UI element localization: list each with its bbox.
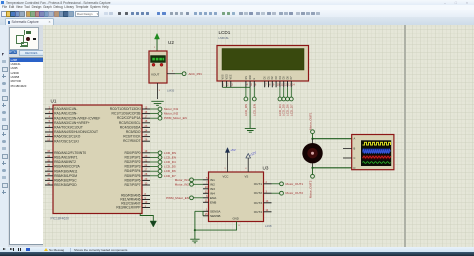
svg-text:VS: VS	[244, 175, 248, 179]
U3 left pins	[203, 180, 209, 216]
LCD1 pin stubs	[222, 81, 291, 87]
svg-text:RD3/PSP3: RD3/PSP3	[124, 165, 140, 169]
wire LCD VSS VDD VEE RW to ground rail	[222, 87, 250, 128]
U1 left pins RA0-RA7, RB0-RB7	[45, 109, 53, 185]
svg-text:RA5/AN4/SS/HLVDIN/C2OUT: RA5/AN4/SS/HLVDIN/C2OUT	[54, 130, 98, 134]
title bar	[0, 0, 474, 5]
U2 pin 3 stub to ground	[156, 83, 158, 99]
wire motor top to oscilloscope A	[312, 138, 351, 140]
display LCD1 LM016L body	[217, 46, 309, 82]
svg-text:VEE: VEE	[229, 74, 232, 79]
svg-text:IN1: IN1	[210, 178, 215, 182]
wire PWM_Motor_EN to U3 ENA	[193, 197, 203, 199]
oscilloscope channel D trace	[362, 162, 390, 164]
svg-text:RC5/SDO: RC5/SDO	[125, 130, 140, 134]
svg-text:RA6/OSC2/CLKO: RA6/OSC2/CLKO	[54, 135, 81, 139]
power terminal +5V on U3 VCC	[225, 148, 235, 153]
svg-text:RC3/SCK/SCL: RC3/SCK/SCL	[118, 121, 140, 125]
oscilloscope C stub	[343, 157, 352, 159]
oscilloscope channel C band	[362, 155, 390, 159]
svg-text:LCD_D4: LCD_D4	[164, 160, 176, 164]
U2 pin 2 stub	[167, 73, 175, 75]
terminal LCD_D4	[277, 97, 281, 116]
svg-text:+5V: +5V	[230, 148, 235, 152]
wire LCD pin to terminal LCD_D6	[286, 87, 288, 97]
wire RD to terminal LCD_D5	[150, 166, 158, 168]
svg-text:OUT1: OUT1	[253, 182, 262, 186]
terminal LCD_EN	[158, 155, 176, 159]
svg-text:L298: L298	[265, 224, 272, 228]
svg-text:RS: RS	[244, 76, 247, 80]
bottom edge	[0, 252, 474, 256]
toolbar	[0, 10, 474, 19]
svg-text:LCD_EN: LCD_EN	[252, 104, 256, 116]
wire RD to terminal LCD_RS	[150, 152, 158, 154]
svg-text:PIC18F4620: PIC18F4620	[50, 217, 69, 221]
svg-text:OUT3: OUT3	[253, 201, 262, 205]
ground arrow terminal below U1	[150, 221, 156, 227]
svg-text:Motor_OUT1: Motor_OUT1	[285, 182, 303, 186]
svg-text:ENB: ENB	[210, 200, 216, 204]
power terminal +5V above U2	[154, 34, 159, 43]
wire LCD pin to terminal LCD_D5	[282, 87, 284, 97]
oscilloscope screen	[361, 140, 391, 166]
wire U3 SENSA SENSB to ground	[194, 211, 236, 230]
svg-text:RB1/AN10/INT1: RB1/AN10/INT1	[54, 156, 78, 160]
wire LCD pin to terminal LCD_D7	[290, 87, 292, 97]
svg-text:LCD_RS: LCD_RS	[164, 151, 176, 155]
wire U1 bottom to down-arrow terminal	[140, 214, 153, 222]
terminal Motor_IN1	[158, 107, 178, 111]
svg-text:Motor_IN2: Motor_IN2	[164, 112, 179, 116]
svg-text:RA4/T0CKI/C1OUT: RA4/T0CKI/C1OUT	[54, 126, 83, 130]
wire RC to terminal PWM_Motor_EN	[150, 117, 158, 119]
svg-text:GND: GND	[232, 217, 238, 221]
P / L buttons + DEVICES header	[9, 50, 13, 55]
svg-text:A: A	[353, 137, 355, 141]
terminal LCD_RS	[158, 151, 176, 155]
svg-text:RB6/KBI2/PGC: RB6/KBI2/PGC	[54, 179, 77, 183]
wire RD to terminal LCD_D6	[150, 170, 158, 172]
svg-text:RA0/AN0/C1IN-: RA0/AN0/C1IN-	[54, 107, 77, 111]
svg-text:VSS: VSS	[221, 74, 224, 79]
tab bar	[0, 17, 474, 26]
terminal Motor_IN1 feeding U3	[174, 178, 193, 182]
terminal LCD_D5	[158, 165, 176, 169]
svg-text:LM016L: LM016L	[218, 36, 229, 40]
wire Motor_IN2 to U3 IN2	[193, 183, 203, 185]
U3 VS pin 4 wire up	[247, 158, 249, 172]
wire RC to terminal Motor_IN2	[150, 113, 158, 115]
terminal PWM_Motor_EN	[158, 116, 187, 120]
oscilloscope channel A trace	[362, 142, 390, 145]
sensor U2 LM35 body	[149, 51, 167, 83]
svg-text:RC4/SDI/SDA: RC4/SDI/SDA	[119, 125, 141, 129]
device listbox	[9, 57, 44, 245]
terminal LCD_D6	[158, 169, 176, 173]
U3 right pin names	[253, 182, 262, 214]
svg-text:LCD_EN: LCD_EN	[164, 155, 176, 159]
oscilloscope channel B trace	[362, 150, 390, 154]
svg-text:IN4: IN4	[210, 191, 215, 195]
U1 right pin numbers	[144, 106, 147, 207]
svg-text:RE3/MCLR/VPP: RE3/MCLR/VPP	[116, 206, 141, 210]
terminal LCD_D6	[285, 97, 289, 116]
junction motor bottom	[311, 167, 313, 169]
svg-text:Motor_OUT2: Motor_OUT2	[285, 191, 303, 195]
junction motor top	[311, 138, 313, 140]
svg-text:VOUT: VOUT	[151, 73, 160, 77]
wire power to U2 pin 1	[156, 42, 158, 51]
svg-text:OUT4: OUT4	[253, 210, 262, 214]
oscilloscope B stub	[343, 147, 352, 149]
svg-text:RD0/PSP0: RD0/PSP0	[124, 151, 140, 155]
svg-text:SENSB: SENSB	[210, 214, 221, 218]
junction below U3	[193, 229, 195, 231]
svg-text:Motor_IN1: Motor_IN1	[174, 178, 189, 182]
sheet border line	[404, 25, 406, 247]
wire U2 pin2 to ADC_PIN terminal	[175, 73, 182, 75]
svg-text:Motor_IN2: Motor_IN2	[174, 182, 189, 186]
ground below LCD1	[244, 129, 255, 133]
status bar	[0, 247, 474, 252]
wire RD to terminal LCD_D7	[150, 175, 158, 177]
terminal LCD_D7	[158, 174, 176, 178]
svg-text:RA7/OSC1/CLKI: RA7/OSC1/CLKI	[54, 139, 79, 143]
svg-text:B: B	[353, 146, 355, 150]
svg-text:LCD1: LCD1	[218, 30, 230, 35]
svg-text:RA3/AN3/C1IN+/VREF+: RA3/AN3/C1IN+/VREF+	[54, 121, 90, 125]
ground below U3	[190, 230, 199, 243]
U3 VCC pin 9 wire up	[226, 153, 228, 173]
U3 left pin numbers	[204, 177, 207, 216]
svg-text:RD1/PSP1: RD1/PSP1	[124, 155, 140, 159]
wire LCD pin to terminal LCD_RS	[244, 87, 246, 97]
ground below U2	[151, 101, 163, 105]
svg-text:RB4/KBI0/AN11: RB4/KBI0/AN11	[54, 169, 78, 173]
terminal LCD_EN	[252, 97, 256, 116]
svg-text:RB2/AN8/INT2: RB2/AN8/INT2	[54, 160, 76, 164]
svg-text:LCD_D6: LCD_D6	[164, 169, 176, 173]
svg-text:LCD_D7: LCD_D7	[289, 104, 293, 116]
svg-text:ADC_PIN: ADC_PIN	[188, 72, 201, 76]
U3 left pin names	[210, 178, 221, 218]
left tool strip	[0, 25, 9, 247]
svg-text:RC1/T1OSI/CCP2B: RC1/T1OSI/CCP2B	[111, 112, 141, 116]
svg-text:RB3/AN9/CCP2A: RB3/AN9/CCP2A	[54, 165, 80, 169]
svg-text:RB7/KBI3/PGD: RB7/KBI3/PGD	[54, 183, 77, 187]
menu bar	[0, 5, 474, 10]
svg-text:U1: U1	[50, 99, 56, 104]
U2 LM35 display	[150, 56, 165, 63]
oscilloscope channel C trace	[362, 156, 391, 158]
U1 left pin names	[54, 107, 100, 187]
svg-text:RB5/KBI1/PGM: RB5/KBI1/PGM	[54, 174, 77, 178]
terminal Motor_OUT1 from U3	[271, 182, 303, 186]
terminal Motor_OUT2 below motor (vertical)	[308, 174, 314, 198]
svg-text:LCD_RS: LCD_RS	[243, 104, 247, 116]
U1 right pins RC0-RC7, RD0-RD7, RE0-RE3	[142, 109, 150, 208]
svg-text:PWM_Motor_EN: PWM_Motor_EN	[166, 196, 189, 200]
svg-text:VDD: VDD	[225, 74, 228, 79]
svg-text:LM35: LM35	[167, 88, 175, 92]
terminal Motor_OUT2 from U3	[271, 191, 303, 195]
svg-text:C: C	[353, 156, 355, 160]
svg-text:D: D	[353, 166, 355, 170]
LCD1 pin names (rotated)	[221, 74, 293, 79]
svg-text:U2: U2	[168, 40, 174, 45]
svg-text:RD6/PSP6: RD6/PSP6	[124, 178, 140, 182]
svg-text:RD4/PSP4: RD4/PSP4	[124, 169, 140, 173]
terminal LCD_RS	[243, 97, 247, 116]
svg-text:VCC: VCC	[222, 175, 228, 179]
U3 right pin numbers	[265, 181, 268, 212]
svg-text:LCD_D5: LCD_D5	[164, 165, 176, 169]
svg-text:RC7/RX/DT: RC7/RX/DT	[123, 139, 140, 143]
svg-text:ENA: ENA	[210, 196, 217, 200]
svg-text:RC2/CCP1/P1A: RC2/CCP1/P1A	[117, 116, 141, 120]
LCD1 screen	[222, 49, 304, 71]
svg-text:RC6/TX/CK: RC6/TX/CK	[123, 135, 141, 139]
driver U3 L298 body	[208, 172, 263, 222]
svg-text:RA1/AN1/C2IN-: RA1/AN1/C2IN-	[54, 112, 77, 116]
svg-text:RC0/T1OSO/T13CKI: RC0/T1OSO/T13CKI	[109, 107, 140, 111]
terminal Motor_IN2	[158, 112, 178, 116]
oscilloscope channel B band	[362, 149, 390, 154]
U3 right pins OUT1-OUT4	[263, 184, 271, 212]
wire RD to terminal LCD_EN	[150, 156, 158, 158]
svg-text:OUT2: OUT2	[253, 191, 262, 195]
terminal Motor_OUT1 above motor (vertical)	[308, 112, 314, 134]
svg-text:PWM_Motor_EN: PWM_Motor_EN	[164, 116, 187, 120]
svg-text:RD5/PSP5: RD5/PSP5	[124, 174, 140, 178]
wire motor bottom to oscilloscope D	[312, 167, 351, 169]
svg-text:IN2: IN2	[210, 182, 215, 186]
left panel: preview	[8, 25, 43, 247]
U1 left pin numbers	[47, 106, 50, 185]
U1 right pin names	[109, 107, 141, 210]
power terminal +12V on U3 VS	[245, 150, 257, 158]
svg-text:U3: U3	[262, 166, 268, 171]
svg-text:RD7/PSP7: RD7/PSP7	[124, 183, 140, 187]
wire LCD pin to terminal LCD_D4	[278, 87, 280, 97]
terminal LCD_D5	[281, 97, 285, 116]
wire terminal to motor top	[311, 133, 313, 138]
U2 up/down buttons	[152, 63, 163, 66]
svg-text:RA2/AN2/C2IN-/VREF-/CVREF: RA2/AN2/C2IN-/VREF-/CVREF	[54, 116, 100, 120]
svg-text:Motor_IN1: Motor_IN1	[164, 107, 179, 111]
wire motor bottom to terminal	[311, 168, 313, 175]
svg-text:RD2/PSP2: RD2/PSP2	[124, 160, 140, 164]
svg-text:IN3: IN3	[210, 187, 215, 191]
wire Motor_IN1 to U3 IN1	[193, 179, 203, 181]
svg-text:Motor_OUT1: Motor_OUT1	[308, 112, 312, 130]
svg-text:Motor_OUT2: Motor_OUT2	[308, 180, 312, 198]
terminal LCD_D7	[289, 97, 293, 116]
svg-text:RW: RW	[249, 75, 252, 80]
svg-text:RB0/AN12/FLT0/INT0: RB0/AN12/FLT0/INT0	[54, 151, 86, 155]
wire RD to terminal LCD_D4	[150, 161, 158, 163]
terminal ADC_PIN	[182, 72, 202, 76]
wire LCD pin to terminal LCD_EN	[253, 87, 255, 97]
LCD1 pin numbers	[223, 84, 295, 87]
terminal LCD_D4	[158, 160, 176, 164]
svg-text:SENSA: SENSA	[210, 209, 221, 213]
terminal PWM_Motor_EN feeding U3	[166, 196, 193, 200]
U1 PIC18F4620 body	[53, 105, 142, 214]
motor body	[302, 139, 322, 168]
oscilloscope pin labels A B C D	[353, 137, 355, 170]
wire RC to terminal Motor_IN1	[150, 108, 158, 110]
oscilloscope body	[351, 135, 393, 170]
terminal Motor_IN2 feeding U3	[174, 182, 193, 186]
